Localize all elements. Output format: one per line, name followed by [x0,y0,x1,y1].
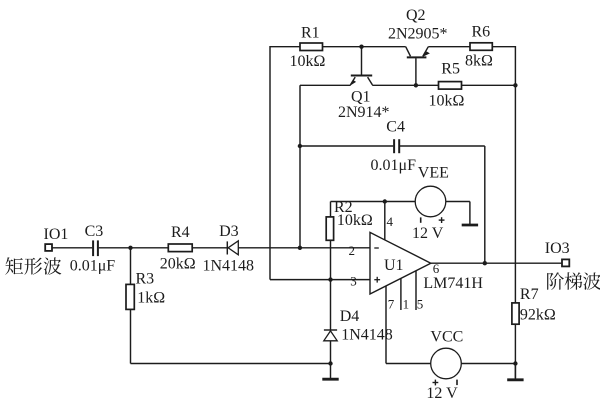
svg-text:4: 4 [387,214,394,229]
capacitor C3 [92,240,94,256]
svg-text:VEE: VEE [418,165,449,182]
wire left rail [269,46,271,280]
wire C4 left [300,145,393,147]
IO3 pad [562,259,569,266]
wire VCC to R7 node [461,363,515,365]
resistor R3 [126,284,134,309]
ground right [514,364,516,379]
svg-text:6: 6 [433,261,440,276]
node output - C4 feedback junction [483,261,487,265]
svg-text:2N2905*: 2N2905* [388,25,448,42]
wire Q1 emitter to C4 node [299,85,301,248]
resistor R5 [439,82,462,90]
svg-text:2: 2 [349,243,356,258]
svg-text:0.01μF: 0.01μF [371,157,417,174]
svg-text:10kΩ: 10kΩ [290,53,326,70]
capacitor C4 [393,139,395,153]
wire Q1 collector to Q2 base node [372,84,438,86]
svg-text:D3: D3 [219,223,239,240]
resistor R1 [300,43,323,51]
wire pin7 to VCC horizontal [386,363,431,365]
node VEE - pin4 junction [383,199,387,203]
op-amp U1 [370,232,431,294]
wire right rail lower [514,324,516,378]
wire main input line [52,247,92,249]
wire right rail [514,46,516,303]
svg-text:R4: R4 [171,224,190,241]
resistor R6 [470,43,492,51]
VEE plus [439,219,445,221]
IO1 pad [45,244,52,251]
node R1-Q1 base junction [359,45,363,49]
op-amp pin4 wire [384,202,386,241]
wire top rail [270,46,300,48]
svg-text:3: 3 [350,273,357,288]
VCC plus [433,382,439,384]
node main line - C4 branch junction [298,246,302,250]
wire R5 to right rail [462,84,516,86]
resistor R7 [512,303,519,324]
transistor Q1 [361,47,363,75]
svg-text:LM741H: LM741H [423,275,483,292]
resistor R2 [326,217,333,240]
op-amp plus marker [374,279,380,281]
svg-text:8kΩ: 8kΩ [465,53,493,70]
node ground - D4 junction [328,361,332,365]
node C4 left junction [298,144,302,148]
svg-text:R6: R6 [472,23,491,40]
node R3 top junction [128,246,132,250]
svg-text:IO1: IO1 [44,226,69,243]
source VEE circle [415,186,446,217]
svg-text:1N4148: 1N4148 [203,258,255,275]
wire noninverting input [270,279,370,281]
ground left [330,364,332,379]
wire R3 ground rail [131,363,331,365]
transistor Q2 [415,58,417,85]
svg-text:0.01μF: 0.01μF [70,258,116,275]
wire op-amp output [431,262,562,264]
wire R2 bottom to D4 [330,240,332,329]
op-amp minus marker [374,247,379,249]
wire R3 to ground rail [130,309,132,363]
svg-text:1: 1 [403,296,410,311]
node R5 right rail junction [513,83,517,87]
svg-text:10kΩ: 10kΩ [337,212,373,229]
op-amp pin5 stub [415,271,417,310]
wire R2 top [330,202,332,217]
wire op-amp pin7 to VCC [385,286,387,364]
svg-text:R3: R3 [136,271,155,288]
svg-text:1kΩ: 1kΩ [137,290,165,307]
svg-text:R1: R1 [301,24,320,41]
label jietibo (staircase wave) [547,272,564,289]
svg-text:2N914*: 2N914* [338,104,390,121]
svg-text:C3: C3 [85,223,104,240]
node R7 bottom junction [513,361,517,365]
svg-text:Q2: Q2 [406,7,426,24]
svg-text:VCC: VCC [430,329,463,346]
wire D4 to ground [330,341,332,364]
wire R2 to VEE node [331,201,416,203]
svg-text:D4: D4 [340,308,360,325]
op-amp pin1 stub [400,278,402,310]
resistor R4 [168,244,192,252]
svg-text:IO3: IO3 [545,240,570,257]
diode D3 [226,241,228,254]
svg-text:R7: R7 [520,286,539,303]
svg-text:R5: R5 [441,60,460,77]
label juxingbo (square wave) [5,257,23,274]
ground VEE [469,202,471,225]
svg-text:12 V: 12 V [412,225,444,242]
VCC minus tick [456,380,458,386]
svg-text:20kΩ: 20kΩ [160,255,196,272]
diode D4 [324,329,337,331]
svg-text:10kΩ: 10kΩ [429,92,465,109]
node pin3 - R2/D4 junction [328,277,332,281]
node Q1 collector - Q2 base junction [414,83,418,87]
svg-text:92kΩ: 92kΩ [520,307,556,324]
wire Q1 emitter horizontal [300,84,351,86]
wire R3 branch [130,248,132,285]
wire VEE to ground corner [446,201,470,203]
VEE minus tick [420,217,422,222]
svg-text:7: 7 [388,296,395,311]
wire C4 right feedback [400,145,485,147]
svg-text:C4: C4 [386,119,405,136]
svg-text:1N4148: 1N4148 [341,326,393,343]
svg-text:12 V: 12 V [426,385,458,402]
source VCC circle [431,348,462,379]
svg-text:U1: U1 [384,257,404,274]
svg-text:5: 5 [417,296,424,311]
